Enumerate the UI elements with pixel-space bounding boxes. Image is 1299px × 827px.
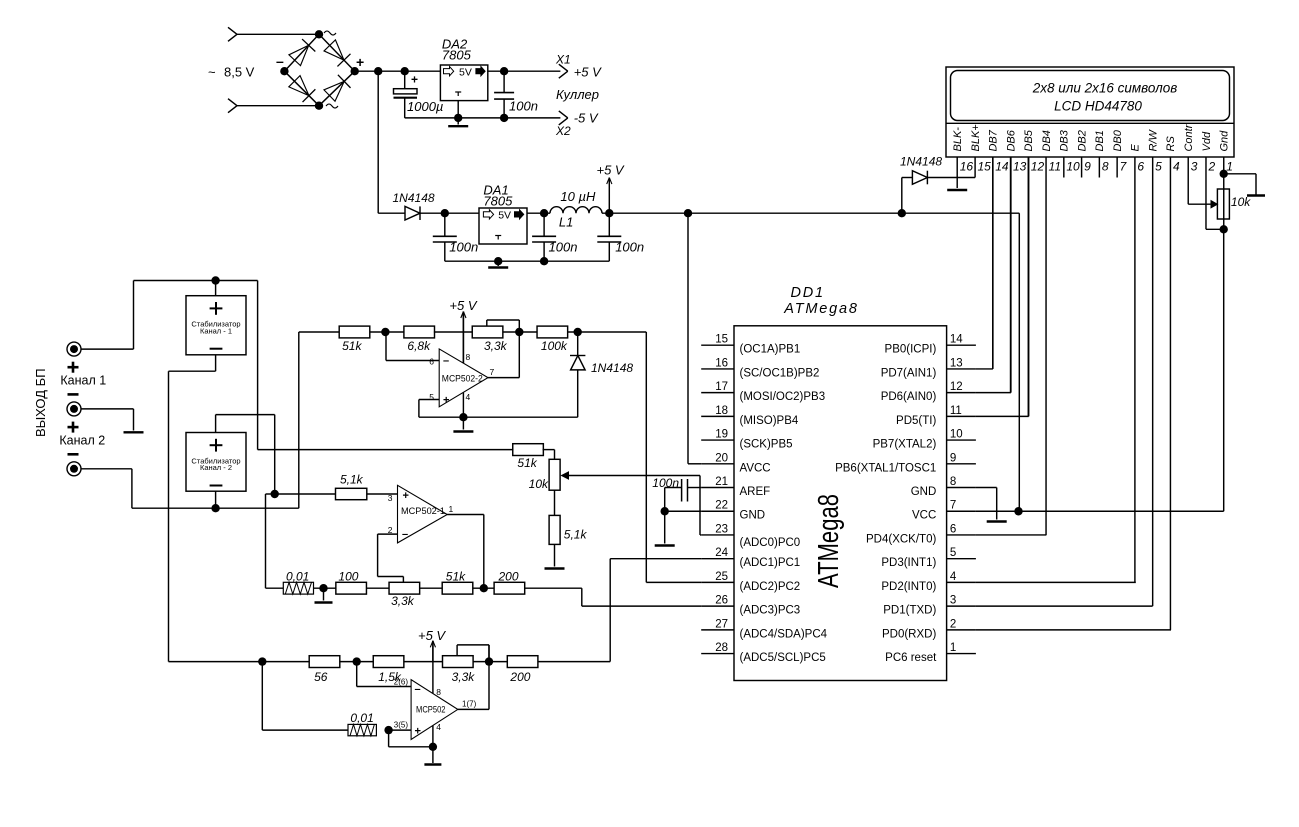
svg-text:1: 1: [1226, 160, 1233, 174]
svg-text:7: 7: [490, 367, 495, 377]
svg-text:GND: GND: [740, 510, 766, 522]
svg-text:100n: 100n: [615, 240, 644, 255]
svg-text:6,8k: 6,8k: [407, 339, 431, 353]
svg-text:PC6 reset: PC6 reset: [885, 652, 937, 664]
svg-text:PD7(AIN1): PD7(AIN1): [881, 367, 937, 379]
svg-text:8: 8: [950, 476, 956, 488]
svg-text:–: –: [402, 529, 408, 541]
svg-text:PD2(INT0): PD2(INT0): [881, 581, 936, 593]
svg-text:200: 200: [509, 670, 530, 684]
svg-text:ATMega8: ATMega8: [813, 494, 845, 588]
svg-text:BLK-: BLK-: [952, 127, 964, 152]
svg-text:PB6(XTAL1/TOSC1: PB6(XTAL1/TOSC1: [835, 462, 936, 474]
svg-text:L1: L1: [559, 215, 573, 230]
svg-text:(SCK)PB5: (SCK)PB5: [740, 439, 793, 451]
svg-text:+5 V: +5 V: [449, 298, 477, 313]
svg-text:+: +: [403, 490, 409, 502]
svg-text:(ADC4/SDA)PC4: (ADC4/SDA)PC4: [740, 628, 828, 640]
svg-text:7: 7: [950, 500, 956, 512]
svg-text:(MISO)PB4: (MISO)PB4: [740, 415, 799, 427]
svg-text:LCD HD44780: LCD HD44780: [1054, 99, 1142, 114]
svg-text:1000µ: 1000µ: [407, 99, 443, 114]
svg-text:3,3k: 3,3k: [484, 339, 508, 353]
svg-text:100n: 100n: [509, 99, 538, 114]
svg-text:3: 3: [388, 493, 393, 503]
svg-text:4: 4: [436, 722, 441, 732]
svg-text:21: 21: [715, 476, 728, 488]
svg-text:100n: 100n: [549, 240, 578, 255]
svg-text:3: 3: [1191, 160, 1198, 174]
svg-text:56: 56: [314, 670, 328, 684]
svg-text:Канал - 2: Канал - 2: [200, 463, 232, 472]
svg-text:(ADC3)PC3: (ADC3)PC3: [740, 605, 801, 617]
svg-text:6: 6: [950, 523, 956, 535]
svg-text:11: 11: [950, 405, 962, 417]
svg-text:5: 5: [1155, 160, 1162, 174]
svg-text:5: 5: [950, 547, 956, 559]
svg-text:PB7(XTAL2): PB7(XTAL2): [873, 439, 937, 451]
svg-text:20: 20: [715, 452, 728, 464]
svg-text:+5 V: +5 V: [418, 628, 446, 643]
svg-text:+: +: [443, 395, 449, 407]
svg-text:24: 24: [715, 547, 728, 559]
svg-text:5V: 5V: [459, 67, 472, 79]
svg-text:MCP502-2: MCP502-2: [442, 374, 483, 384]
svg-text:Contr: Contr: [1183, 123, 1195, 151]
svg-text:10k: 10k: [529, 477, 549, 491]
svg-text:12: 12: [950, 381, 963, 393]
svg-text:(ADC2)PC2: (ADC2)PC2: [740, 581, 801, 593]
svg-text:2(6): 2(6): [394, 678, 409, 687]
svg-text:13: 13: [950, 357, 963, 369]
svg-text:R/W: R/W: [1147, 129, 1159, 152]
svg-text:+: +: [415, 726, 421, 738]
svg-text:PD5(TI): PD5(TI): [896, 415, 936, 427]
svg-text:51k: 51k: [517, 456, 537, 470]
svg-text:X1: X1: [555, 53, 571, 67]
svg-text:DB3: DB3: [1059, 129, 1071, 151]
svg-text:100n: 100n: [449, 240, 478, 255]
svg-text:16: 16: [960, 160, 974, 174]
svg-text:14: 14: [995, 160, 1009, 174]
svg-text:5V: 5V: [498, 210, 511, 222]
svg-text:1N4148: 1N4148: [393, 191, 435, 205]
svg-text:100k: 100k: [541, 339, 568, 353]
svg-text:5,1k: 5,1k: [340, 473, 364, 487]
svg-text:4: 4: [1173, 160, 1180, 174]
svg-text:RS: RS: [1165, 136, 1177, 152]
svg-text:VCC: VCC: [912, 510, 936, 522]
svg-text:DB5: DB5: [1023, 129, 1035, 151]
svg-text:2: 2: [950, 618, 956, 630]
svg-text:PD4(XCK/T0): PD4(XCK/T0): [866, 533, 936, 545]
svg-text:22: 22: [715, 500, 728, 512]
svg-text:4: 4: [950, 571, 957, 583]
svg-text:51k: 51k: [446, 570, 466, 584]
svg-text:9: 9: [950, 452, 956, 464]
svg-text:-5 V: -5 V: [574, 111, 599, 126]
svg-text:8: 8: [1102, 160, 1109, 174]
svg-text:Канал - 1: Канал - 1: [200, 326, 232, 335]
svg-text:DB0: DB0: [1112, 129, 1124, 151]
svg-text:GND: GND: [911, 486, 937, 498]
svg-text:DB7: DB7: [988, 129, 1000, 151]
svg-text:10: 10: [950, 429, 963, 441]
svg-text:Канал 2: Канал 2: [59, 433, 105, 447]
svg-text:DD1: DD1: [791, 285, 825, 301]
svg-text:–: –: [276, 53, 284, 69]
svg-text:0,01: 0,01: [286, 570, 309, 584]
svg-text:Куллер: Куллер: [556, 87, 599, 102]
svg-text:10 µH: 10 µH: [560, 189, 596, 204]
svg-text:(MOSI/OC2)PB3: (MOSI/OC2)PB3: [740, 391, 826, 403]
svg-text:51k: 51k: [342, 339, 362, 353]
svg-text:100: 100: [338, 570, 358, 584]
svg-text:MCP502: MCP502: [416, 705, 446, 715]
svg-text:17: 17: [715, 381, 728, 393]
svg-text:ATMega8: ATMega8: [783, 301, 858, 317]
svg-text:+: +: [411, 73, 418, 87]
svg-text:12: 12: [1031, 160, 1045, 174]
svg-text:(ADC0)PC0: (ADC0)PC0: [740, 537, 801, 549]
svg-text:Канал 1: Канал 1: [60, 374, 106, 388]
svg-text:19: 19: [715, 429, 728, 441]
svg-text:PB0(ICPI): PB0(ICPI): [885, 344, 937, 356]
svg-text:10k: 10k: [1231, 195, 1251, 209]
svg-text:DB6: DB6: [1005, 129, 1017, 151]
svg-text:PD1(TXD): PD1(TXD): [883, 605, 936, 617]
svg-text:+: +: [356, 54, 364, 70]
svg-text:+5 V: +5 V: [574, 65, 602, 80]
svg-text:3: 3: [950, 595, 956, 607]
svg-text:1: 1: [950, 642, 956, 654]
svg-text:4: 4: [466, 392, 471, 402]
svg-text:X2: X2: [555, 124, 571, 138]
svg-text:1N4148: 1N4148: [900, 155, 942, 169]
svg-text:3,3k: 3,3k: [391, 594, 415, 608]
svg-text:Vdd: Vdd: [1201, 131, 1213, 151]
svg-text:3(5): 3(5): [394, 721, 409, 730]
svg-text:1: 1: [449, 504, 454, 514]
svg-text:2x8 или 2x16 символов: 2x8 или 2x16 символов: [1032, 81, 1178, 96]
svg-text:7805: 7805: [442, 48, 472, 63]
svg-text:200: 200: [498, 570, 519, 584]
svg-text:–: –: [415, 684, 421, 696]
svg-text:DB4: DB4: [1041, 130, 1053, 151]
svg-text:8: 8: [466, 352, 471, 362]
svg-text:14: 14: [950, 334, 963, 346]
svg-text:1(7): 1(7): [462, 700, 477, 709]
svg-text:6: 6: [429, 357, 434, 367]
svg-text:23: 23: [715, 523, 728, 535]
svg-text:Gnd: Gnd: [1219, 130, 1231, 152]
svg-text:1N4148: 1N4148: [591, 361, 633, 375]
svg-text:25: 25: [715, 571, 728, 583]
svg-text:6: 6: [1137, 160, 1144, 174]
svg-text:DB1: DB1: [1094, 130, 1106, 151]
svg-text:3,3k: 3,3k: [452, 670, 476, 684]
svg-text:7805: 7805: [483, 194, 513, 209]
svg-text:ВЫХОД БП: ВЫХОД БП: [33, 368, 48, 437]
svg-text:(OC1A)PB1: (OC1A)PB1: [740, 344, 801, 356]
svg-text:11: 11: [1049, 160, 1061, 174]
svg-text:(ADC5/SCL)PC5: (ADC5/SCL)PC5: [740, 652, 826, 664]
svg-text:(ADC1)PC1: (ADC1)PC1: [740, 557, 801, 569]
svg-text:PD0(RXD): PD0(RXD): [882, 628, 936, 640]
svg-text:–: –: [443, 355, 449, 367]
svg-text:AREF: AREF: [740, 486, 771, 498]
svg-text:26: 26: [715, 595, 728, 607]
svg-text:2: 2: [1207, 160, 1215, 174]
svg-text:~: ~: [208, 65, 216, 80]
svg-text:PD3(INT1): PD3(INT1): [881, 557, 936, 569]
svg-text:8,5 V: 8,5 V: [224, 65, 255, 80]
svg-text:13: 13: [1013, 160, 1027, 174]
svg-text:8: 8: [436, 687, 441, 697]
svg-text:27: 27: [715, 618, 728, 630]
svg-text:5: 5: [429, 392, 434, 402]
svg-text:18: 18: [715, 405, 728, 417]
svg-text:DB2: DB2: [1076, 130, 1088, 151]
svg-text:+5 V: +5 V: [597, 163, 625, 178]
svg-text:5,1k: 5,1k: [564, 528, 588, 542]
svg-text:15: 15: [715, 334, 728, 346]
svg-text:BLK+: BLK+: [970, 124, 982, 152]
svg-text:9: 9: [1084, 160, 1091, 174]
svg-text:AVCC: AVCC: [740, 462, 771, 474]
svg-text:E: E: [1130, 144, 1142, 152]
svg-text:15: 15: [977, 160, 991, 174]
svg-text:0,01: 0,01: [350, 711, 373, 725]
svg-text:28: 28: [715, 642, 728, 654]
svg-text:PD6(AIN0): PD6(AIN0): [881, 391, 937, 403]
svg-text:10: 10: [1066, 160, 1080, 174]
svg-text:(SC/OC1B)PB2: (SC/OC1B)PB2: [740, 367, 820, 379]
svg-text:16: 16: [715, 357, 728, 369]
svg-text:MCP502-1: MCP502-1: [401, 506, 445, 516]
